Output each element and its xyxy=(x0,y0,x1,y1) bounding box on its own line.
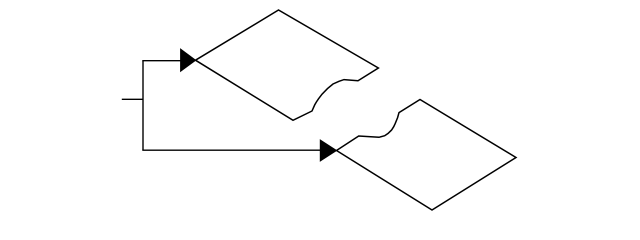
arrowhead bottom xyxy=(320,140,336,161)
torn-sheet symbol lower xyxy=(337,100,517,211)
arrowhead top xyxy=(181,49,196,71)
torn-sheet symbol upper xyxy=(196,10,379,120)
wire vertical branch xyxy=(142,61,144,151)
wire bottom horizontal xyxy=(142,149,321,151)
wire top horizontal xyxy=(142,60,181,62)
terminal stub xyxy=(122,98,143,100)
